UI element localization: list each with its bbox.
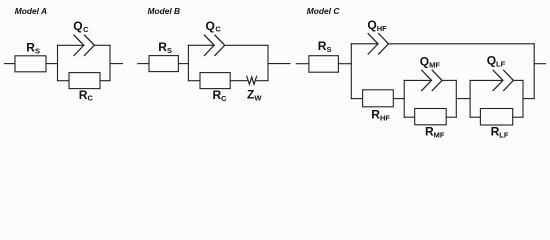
wire C outer left bar bbox=[350, 44, 352, 99]
wire B input bbox=[138, 63, 149, 65]
CPE QC (Model A) bbox=[74, 35, 94, 55]
wire B top rail right bbox=[225, 44, 268, 46]
CPE QMF bbox=[422, 70, 442, 90]
resistor RMF bbox=[415, 109, 447, 125]
wire LF bottom rail right bbox=[513, 116, 523, 118]
wire B RC to Warburg bbox=[230, 80, 247, 82]
resistor RS (Model A) bbox=[15, 56, 46, 72]
resistor RLF bbox=[480, 109, 512, 126]
wire MF bottom rail right bbox=[446, 116, 456, 118]
wire A top rail left bbox=[58, 44, 84, 46]
svg-text:Model C: Model C bbox=[307, 6, 341, 16]
svg-text:Model A: Model A bbox=[15, 6, 47, 16]
wire MF left bar bbox=[403, 80, 405, 117]
wire MF to LF block bbox=[456, 98, 470, 100]
wire B RS to node bbox=[178, 63, 188, 65]
wire A RS to node bbox=[46, 63, 58, 65]
wire A output bbox=[110, 63, 123, 65]
resistor RC (Model B) bbox=[200, 73, 230, 89]
resistor RS (Model B) bbox=[149, 56, 178, 72]
wire C top rail right bbox=[389, 43, 535, 45]
wire C branch left bbox=[351, 98, 362, 100]
wire MF top rail right bbox=[442, 79, 456, 81]
wire B Warburg to bar bbox=[256, 80, 268, 82]
resistor RHF bbox=[363, 90, 394, 107]
wire MF right bar bbox=[455, 80, 457, 117]
CPE QC (Model B) bbox=[204, 35, 224, 55]
wire B right bar bbox=[267, 45, 269, 80]
svg-text:Model B: Model B bbox=[148, 6, 181, 16]
wire A top rail right bbox=[94, 44, 110, 46]
wire MF bottom rail left bbox=[404, 116, 415, 118]
wire C output bbox=[534, 63, 546, 65]
CPE QLF bbox=[493, 70, 513, 90]
wire LF bottom rail left bbox=[470, 116, 480, 118]
wire C RS to node bbox=[338, 63, 351, 65]
wire C input bbox=[296, 63, 309, 65]
wire LF right bar bbox=[522, 80, 524, 117]
wire LF top rail right bbox=[513, 79, 523, 81]
resistor RS (Model C) bbox=[309, 56, 339, 72]
wire B left bar bbox=[187, 45, 189, 80]
CPE QHF bbox=[368, 34, 388, 54]
wire MF top rail left bbox=[404, 79, 431, 81]
wire B output bbox=[268, 63, 290, 65]
wire A right bar bbox=[109, 45, 111, 80]
wire B top rail left bbox=[188, 44, 214, 46]
wire LF left bar bbox=[469, 80, 471, 117]
resistor RC (Model A) bbox=[69, 73, 100, 89]
wire A bottom rail left bbox=[58, 80, 70, 82]
wire LF block to outer right bar bbox=[523, 98, 534, 100]
Warburg element ZW bbox=[247, 76, 257, 84]
wire LF top rail left bbox=[470, 79, 503, 81]
wire C top rail left bbox=[351, 43, 378, 45]
wire A left bar bbox=[57, 45, 59, 80]
wire C RHF to MF block bbox=[393, 98, 404, 100]
wire A input bbox=[5, 63, 16, 65]
wire C outer right bar bbox=[533, 44, 535, 99]
wire A bottom rail right bbox=[100, 80, 110, 82]
wire B bottom rail left bbox=[188, 80, 200, 82]
